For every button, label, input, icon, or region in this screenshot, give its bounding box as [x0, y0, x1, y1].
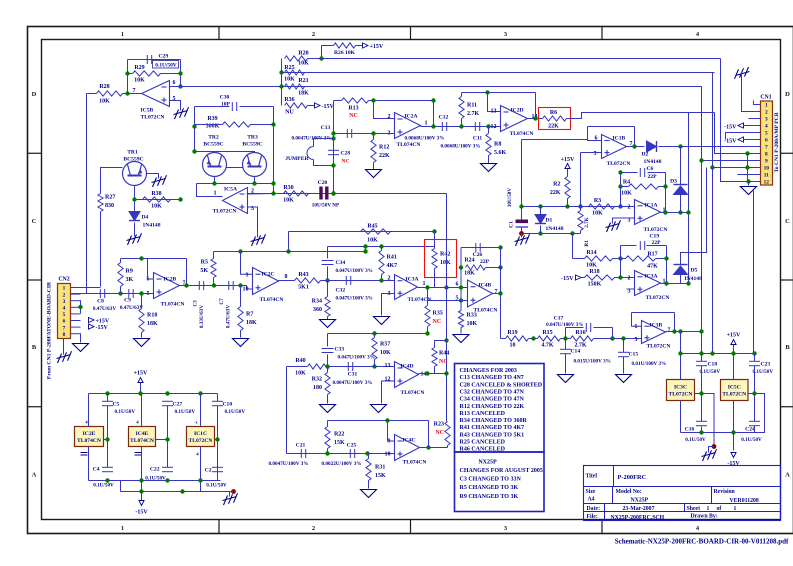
junction	[664, 256, 668, 260]
bus wire y58	[322, 58, 721, 60]
ground R34	[320, 320, 336, 328]
junction	[678, 351, 682, 355]
wire IC4D out row	[419, 373, 447, 375]
junction	[444, 371, 448, 375]
wire D4 top	[134, 200, 136, 212]
svg-text:IC4E: IC4E	[136, 431, 149, 437]
wire C17 row	[566, 327, 584, 329]
resistor R23	[434, 422, 450, 446]
capacitor C2	[205, 467, 227, 488]
svg-text:0.015U/100V 3%: 0.015U/100V 3%	[574, 359, 611, 365]
svg-text:CHANGES FOR AUGUST 2005: CHANGES FOR AUGUST 2005	[460, 468, 543, 474]
junction	[118, 291, 122, 295]
junction	[699, 391, 703, 395]
junction	[331, 136, 335, 140]
svg-text:7: 7	[765, 145, 768, 151]
connector CN1	[760, 95, 772, 186]
capacitor C20 electrolytic	[312, 180, 340, 209]
power +15V R2	[561, 157, 575, 169]
IC4E pin marks	[135, 420, 142, 456]
junction	[105, 478, 109, 482]
op-amp IC3B	[635, 321, 671, 350]
svg-text:R17: R17	[647, 252, 657, 258]
svg-text:P-200FRC: P-200FRC	[618, 474, 647, 481]
wire R35 top	[427, 301, 429, 306]
wire bus58 drop pin12	[721, 59, 761, 182]
svg-text:R41: R41	[387, 255, 397, 261]
svg-text:10K: 10K	[99, 99, 110, 105]
wire CN1 pin3 stub	[749, 118, 761, 120]
svg-text:R7: R7	[246, 312, 253, 318]
diode D3	[670, 179, 688, 566]
wire TR1 base	[101, 168, 123, 194]
svg-text:1N4148: 1N4148	[546, 226, 564, 232]
svg-text:C21: C21	[296, 443, 306, 449]
wire IC4E side pin	[156, 439, 168, 441]
wire main col x333	[333, 101, 335, 194]
wire C1 gnd	[521, 234, 523, 238]
wire IC5A out col	[197, 184, 223, 197]
svg-text:10: 10	[764, 166, 770, 172]
junction	[663, 184, 667, 188]
changes box 2003	[455, 364, 545, 453]
capacitor C16	[685, 421, 707, 443]
wire gnd stub pin12	[748, 182, 750, 186]
border column labels	[121, 31, 700, 532]
svg-text:2: 2	[312, 525, 315, 532]
ground CN1 pin12	[741, 187, 757, 195]
svg-text:D4: D4	[142, 215, 149, 221]
svg-text:R57: R57	[380, 342, 390, 348]
wire pin3-5 col	[80, 300, 82, 313]
wire R35 bottom	[427, 327, 429, 334]
wire C29 right leg	[180, 60, 182, 87]
svg-text:0.1U/50V: 0.1U/50V	[741, 437, 762, 443]
wire C14 gnd	[565, 354, 567, 374]
svg-text:C16: C16	[685, 427, 695, 433]
resistor R17	[626, 252, 659, 270]
svg-text:10K: 10K	[440, 260, 451, 266]
resistor R13	[342, 98, 369, 119]
svg-text:C13: C13	[321, 125, 331, 131]
junction	[533, 116, 537, 120]
svg-text:C20: C20	[318, 180, 328, 186]
svg-text:5: 5	[765, 131, 768, 137]
svg-text:C27: C27	[173, 402, 183, 408]
capacitor C15	[618, 352, 666, 368]
capacitor C18	[696, 361, 720, 375]
power +15V CN2	[89, 317, 110, 324]
junction	[286, 249, 290, 253]
ground R12	[366, 170, 382, 178]
svg-text:7: 7	[668, 328, 671, 334]
svg-text:R12 CHANGED TO 22K: R12 CHANGED TO 22K	[460, 404, 525, 410]
wire signal row y453	[287, 453, 395, 455]
wire IC3C left col upper	[680, 332, 682, 380]
svg-text:R34: R34	[312, 299, 322, 305]
junction	[279, 84, 283, 88]
junction	[664, 281, 668, 285]
wire C15 gnd	[623, 357, 625, 374]
wire gnd col x741 pin2	[742, 72, 761, 112]
svg-text:22P: 22P	[648, 174, 658, 180]
junction	[444, 285, 448, 289]
svg-text:of: of	[717, 506, 722, 512]
capacitor C34	[322, 260, 373, 274]
junction	[331, 191, 335, 195]
svg-text:C2: C2	[205, 468, 212, 474]
wire IC2A fb col	[433, 101, 435, 127]
svg-text:BC559C: BC559C	[203, 142, 223, 148]
svg-text:47K: 47K	[647, 264, 658, 270]
op-amp IC1B	[594, 135, 633, 168]
junction	[331, 163, 335, 167]
svg-text:5: 5	[147, 291, 150, 297]
svg-text:Schematic-NX25P-200FRC-BOARD-C: Schematic-NX25P-200FRC-BOARD-CIR-00-V011…	[615, 538, 789, 546]
wire IC1A pin3	[613, 218, 635, 224]
svg-text:0.1U/50V: 0.1U/50V	[93, 483, 114, 489]
wire R14-R17	[613, 258, 626, 260]
svg-text:A: A	[785, 472, 790, 479]
svg-text:0.47U/63V: 0.47U/63V	[93, 306, 116, 312]
IC4E box	[129, 427, 156, 447]
svg-text:NX25P: NX25P	[631, 498, 649, 504]
svg-text:IC3C: IC3C	[674, 385, 687, 391]
wire CN1 pin5 jog	[726, 133, 761, 140]
svg-text:2.7K: 2.7K	[467, 111, 480, 117]
svg-text:BC559C: BC559C	[242, 142, 262, 148]
junction	[699, 329, 703, 333]
svg-text:10K: 10K	[134, 78, 145, 84]
wire IC4B out	[493, 293, 501, 295]
wire col x714 pin8	[715, 113, 761, 154]
capacitor C33	[322, 347, 375, 361]
wire IC1C col bottom	[200, 447, 202, 492]
svg-text:R35: R35	[433, 311, 443, 317]
svg-text:B: B	[32, 344, 37, 351]
wire IC4E col mid	[141, 394, 143, 427]
junction	[459, 298, 463, 302]
ground R32	[320, 405, 336, 413]
svg-text:4K7: 4K7	[387, 263, 398, 269]
wire R32 gnd	[327, 395, 329, 404]
svg-text:10K: 10K	[298, 61, 309, 67]
wire C24 col2	[754, 426, 756, 433]
svg-text:IC4B: IC4B	[479, 283, 492, 289]
IC3C box	[667, 380, 695, 401]
main wire y193	[247, 193, 447, 195]
ground CN2 bottom	[57, 351, 72, 363]
svg-text:R30: R30	[283, 185, 293, 191]
resistor R11	[459, 97, 480, 119]
svg-text:1: 1	[63, 286, 66, 292]
junction	[271, 191, 275, 195]
svg-text:C3: C3	[193, 300, 199, 307]
svg-text:Model No:: Model No:	[616, 489, 642, 495]
resistor R1	[578, 211, 590, 247]
wire R7 gnd	[240, 331, 242, 338]
svg-text:0.0022U/100V 3%: 0.0022U/100V 3%	[322, 461, 362, 467]
svg-text:0.0047U/100V 3%: 0.0047U/100V 3%	[333, 380, 373, 386]
junction	[425, 285, 429, 289]
svg-text:TL074CN: TL074CN	[397, 142, 421, 148]
wire IC2C pin9 stub	[241, 252, 253, 275]
resistor R21	[285, 78, 310, 97]
resistor R5	[200, 259, 216, 278]
svg-text:5: 5	[635, 337, 638, 343]
wire fb right col IC4B	[500, 248, 502, 339]
junction	[699, 158, 703, 162]
svg-text:IC5B: IC5B	[141, 108, 154, 114]
power +15V rail block	[727, 333, 741, 345]
svg-text:C29: C29	[159, 54, 169, 60]
wire R45 row	[289, 231, 435, 233]
wire R28 to left rail	[87, 93, 97, 95]
svg-text:10: 10	[243, 287, 249, 293]
junction	[485, 90, 489, 94]
wire R45 left col	[288, 232, 290, 252]
capacitor C32 series	[336, 276, 373, 302]
wire C18 col2	[701, 366, 703, 422]
svg-text:R9: R9	[126, 269, 133, 275]
ground R10	[134, 339, 150, 347]
resistor R8	[486, 134, 507, 157]
svg-text:C6: C6	[647, 166, 654, 172]
resistor R44	[432, 348, 449, 367]
wire R13 left	[334, 100, 342, 102]
highlight box R6	[539, 108, 571, 130]
power +15V bottom block	[134, 371, 148, 383]
junction	[578, 204, 582, 208]
resistor R6	[543, 110, 567, 130]
wire rail y480	[89, 480, 221, 482]
wire R41 top	[381, 247, 383, 251]
junction	[678, 329, 682, 333]
wire C6 row2	[648, 172, 666, 174]
IC2E box	[75, 427, 104, 447]
IC5C box	[721, 380, 749, 401]
svg-text:5K1: 5K1	[298, 285, 309, 291]
svg-text:R1: R1	[584, 240, 590, 247]
wire IC2B pin6 stub	[148, 259, 154, 280]
junction	[745, 151, 749, 155]
op-amp IC3A mid	[388, 275, 432, 304]
svg-text:-15V: -15V	[322, 104, 335, 110]
wire fb row y246	[328, 246, 435, 248]
wire TR1 emitter down	[134, 186, 136, 200]
junction	[498, 245, 502, 249]
wire C5 col2	[107, 406, 109, 468]
junction	[165, 391, 169, 395]
wire IC2A pin2 col	[374, 101, 395, 119]
svg-text:A: A	[32, 472, 37, 479]
svg-text:R16: R16	[575, 330, 585, 336]
connector CN2	[58, 277, 71, 339]
wire C19 right col	[666, 246, 668, 284]
wire C19 row2	[647, 245, 667, 247]
wire IC2A out row	[421, 126, 501, 128]
svg-text:0.0047U/100V 3%: 0.0047U/100V 3%	[269, 461, 309, 467]
svg-text:D2: D2	[642, 152, 649, 158]
wire R27 bottom col	[100, 212, 102, 287]
resistor R4	[621, 180, 658, 197]
resistor R31	[366, 459, 386, 481]
resistor R22	[325, 427, 345, 449]
svg-text:22K: 22K	[379, 153, 390, 159]
svg-text:6: 6	[765, 138, 768, 144]
svg-text:IC3A: IC3A	[645, 274, 658, 280]
wire C29 loop top	[128, 59, 181, 61]
ground R33	[453, 335, 469, 343]
junction	[78, 305, 82, 309]
svg-text:1: 1	[121, 525, 124, 532]
junction	[132, 197, 136, 201]
junction	[618, 256, 622, 260]
capacitor C4	[93, 467, 114, 489]
wire R19-R15	[529, 338, 538, 340]
junction	[459, 124, 463, 128]
op-amp IC4C	[385, 435, 427, 466]
capacitor C21	[269, 443, 309, 468]
svg-text:2: 2	[765, 110, 768, 116]
junction	[192, 149, 196, 153]
ground R8	[481, 164, 497, 172]
svg-text:1: 1	[707, 506, 710, 512]
wire R32 top	[327, 367, 329, 373]
junction	[238, 249, 242, 253]
wire C1 to IC1B fb	[522, 139, 588, 141]
wire IC1C col top	[200, 394, 202, 427]
wire R42 bottom	[434, 269, 436, 288]
ground R31	[361, 490, 377, 498]
wire IC1B fb row	[588, 126, 635, 128]
wire R42 top col	[434, 232, 436, 249]
svg-text:2: 2	[63, 292, 66, 298]
wire D3 col top	[680, 147, 682, 185]
wire C33 col	[327, 334, 329, 347]
wire red gnd	[709, 447, 715, 453]
diode D2	[642, 141, 662, 165]
op-amp IC5A (mirrored)	[213, 187, 255, 215]
svg-text:To CN1 P-200A/MP PCB: To CN1 P-200A/MP PCB	[774, 112, 780, 172]
junction	[498, 291, 502, 295]
wire R2 top	[567, 169, 569, 177]
resistor R43	[295, 272, 321, 291]
junction	[745, 165, 749, 169]
junction	[610, 336, 614, 340]
junction	[271, 181, 275, 185]
resistor R39	[206, 116, 251, 130]
wire R22 bottom	[327, 449, 329, 454]
svg-text:JUMPER: JUMPER	[285, 156, 309, 162]
wire col rail2 left	[120, 481, 122, 492]
capacitor C27	[162, 401, 195, 415]
wire R5 top	[213, 252, 215, 259]
resistor R25	[284, 65, 304, 83]
wire C34 col top	[327, 247, 329, 259]
wire R23 bottom	[447, 446, 449, 448]
wire fb col x428	[428, 421, 430, 448]
wire R44 top	[435, 341, 447, 348]
resistor R9	[118, 263, 134, 287]
wire IC5A pin3	[248, 207, 258, 238]
wire R9 bottom	[120, 287, 122, 294]
wire R1 bottom	[580, 231, 582, 234]
wire IC4D pin12	[382, 381, 395, 404]
wire IC2D fb row	[462, 92, 536, 94]
ground IC1A	[606, 220, 621, 232]
junction	[379, 244, 383, 248]
svg-text:10K: 10K	[295, 371, 306, 377]
wire IC3C left col lower	[680, 401, 682, 433]
wire IC1B fb left col	[588, 127, 602, 141]
ground CN2 pin8	[73, 344, 89, 352]
junction	[325, 364, 329, 368]
resistor R26	[334, 43, 356, 56]
svg-text:IC1B: IC1B	[613, 136, 626, 142]
wire IC5A pin2	[248, 193, 274, 196]
junction	[459, 285, 463, 289]
svg-text:C9: C9	[124, 298, 131, 304]
junction	[325, 451, 329, 455]
svg-text:C15: C15	[629, 352, 639, 358]
wire IC4B pin5 jog	[428, 288, 468, 301]
wire C6 left col	[620, 173, 622, 207]
svg-text:18K: 18K	[246, 320, 257, 326]
svg-text:5: 5	[594, 151, 597, 157]
resistor R20	[285, 51, 310, 67]
wire IC2B out row	[180, 286, 253, 290]
wire R57 top	[374, 334, 376, 338]
wire C1 bottom	[521, 227, 523, 234]
wire D1 bottom	[540, 226, 542, 234]
wire IC5C bottom stub	[733, 401, 735, 433]
wire D4 down	[134, 223, 136, 237]
junction	[618, 204, 622, 208]
svg-text:CHANGES FOR 2003: CHANGES FOR 2003	[460, 368, 517, 374]
svg-text:TL074CN: TL074CN	[401, 390, 425, 396]
capacitor C28	[328, 150, 350, 164]
svg-text:R20: R20	[298, 51, 308, 57]
power -15V CN2	[89, 324, 109, 331]
svg-text:R8: R8	[494, 142, 501, 148]
junction	[426, 445, 430, 449]
wire long col x446	[446, 194, 448, 422]
svg-text:R19: R19	[507, 330, 517, 336]
resistor R12	[371, 140, 390, 163]
svg-text:1N4148: 1N4148	[143, 223, 161, 229]
junction red	[231, 489, 236, 494]
wire y366 row	[330, 366, 395, 368]
resistor R32	[312, 373, 330, 395]
wire R20 out	[308, 58, 322, 60]
svg-text:CN2: CN2	[58, 277, 69, 283]
svg-text:6: 6	[456, 282, 459, 288]
svg-text:R9 CHANGED TO 3K: R9 CHANGED TO 3K	[460, 494, 519, 500]
wire bias bottom row	[522, 233, 581, 235]
svg-text:22K: 22K	[550, 190, 561, 196]
border row labels	[32, 91, 791, 479]
svg-text:R42: R42	[440, 252, 450, 258]
wire IC4E col bottom	[141, 447, 143, 492]
power -15V CN1 pin6	[724, 137, 760, 145]
wire C27 col2	[167, 406, 169, 468]
op-amp IC4B	[456, 280, 498, 314]
resistor R57	[372, 338, 391, 360]
wire R6 out	[567, 113, 715, 119]
svg-text:18K: 18K	[464, 271, 475, 277]
svg-text:TL074CN: TL074CN	[161, 302, 185, 308]
